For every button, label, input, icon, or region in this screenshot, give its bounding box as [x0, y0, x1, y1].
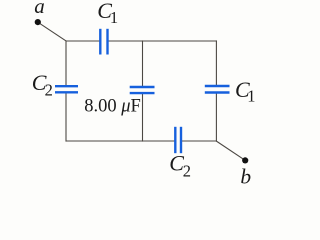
wire: bottom side, left of bottom C2 — [66, 140, 175, 142]
svg-text:b: b — [240, 164, 251, 185]
capacitor C1 (top) plates — [100, 29, 107, 55]
capacitor 8.00 uF (middle) plates — [130, 87, 155, 93]
wire: right side, above right C1 — [215, 40, 217, 86]
svg-text:2: 2 — [45, 81, 53, 100]
wire: top side, right of C1 — [109, 40, 218, 42]
wire: right side, below right C1 — [215, 93, 217, 142]
wire: left side, above C2 — [65, 40, 67, 86]
wire: middle branch, below 8.00uF cap — [142, 93, 144, 142]
node a (terminal dot) — [35, 19, 41, 25]
wire: bottom side, right of bottom C2 — [181, 140, 217, 142]
capacitor C2 (left) plates — [55, 86, 78, 92]
wire: top side, left of C1 — [66, 40, 100, 42]
svg-text:a: a — [34, 0, 45, 18]
capacitor C1 (right) plates — [205, 86, 230, 93]
node b (terminal dot) — [242, 157, 248, 163]
svg-text:1: 1 — [247, 87, 255, 106]
wire: diagonal lead from terminal a — [38, 22, 66, 41]
svg-text:2: 2 — [183, 162, 191, 181]
wire: left side, below C2 — [65, 92, 67, 141]
svg-text:1: 1 — [110, 8, 118, 27]
wire: middle branch, above 8.00uF cap — [142, 40, 144, 87]
wire: diagonal lead to terminal b — [216, 141, 244, 160]
capacitor C2 (bottom) plates — [175, 127, 181, 153]
svg-text:8.00 μF: 8.00 μF — [84, 96, 141, 116]
